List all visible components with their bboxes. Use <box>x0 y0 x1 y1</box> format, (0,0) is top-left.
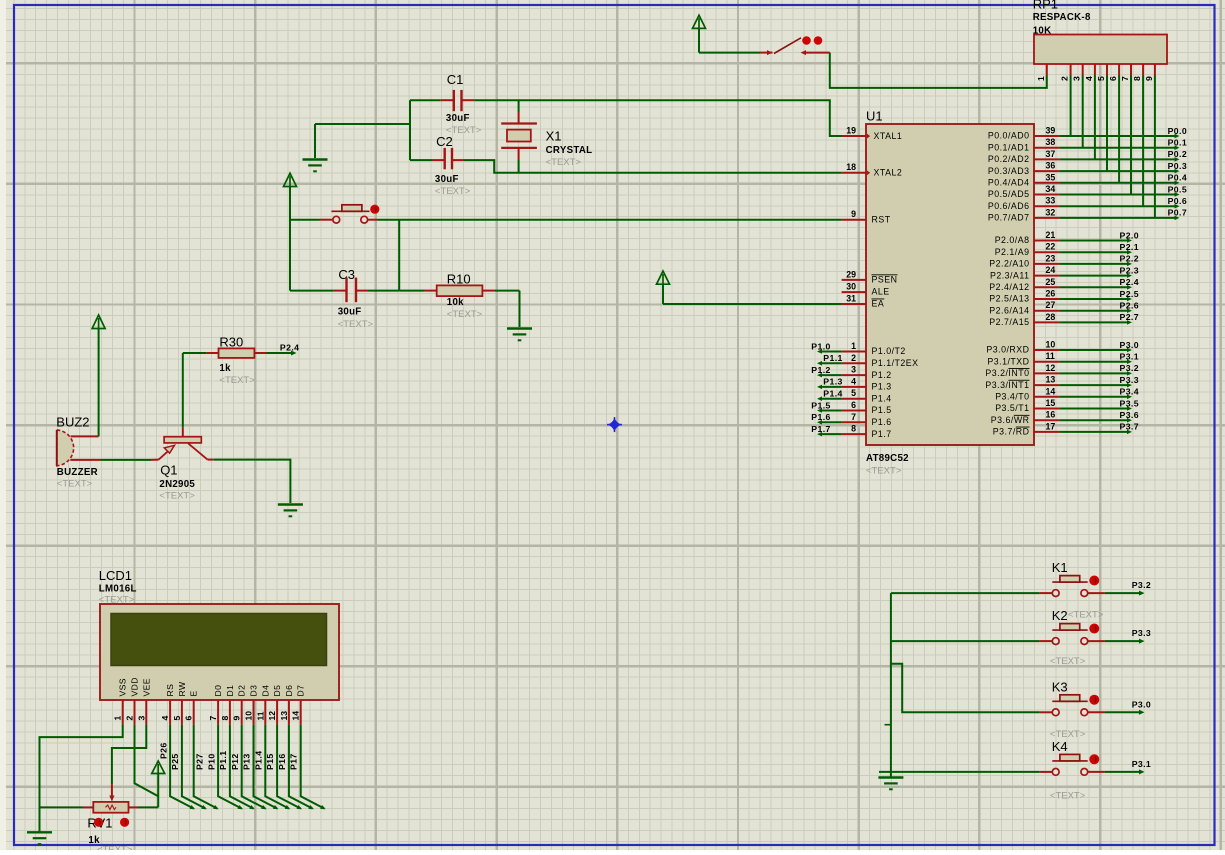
svg-text:36: 36 <box>1046 161 1056 171</box>
svg-text:11: 11 <box>255 711 265 720</box>
svg-text:P2.0/A8: P2.0/A8 <box>995 235 1030 245</box>
svg-text:RS: RS <box>165 684 175 697</box>
svg-text:P3.2/INT0: P3.2/INT0 <box>985 368 1029 378</box>
svg-text:3: 3 <box>136 716 146 721</box>
svg-text:P2.5/A13: P2.5/A13 <box>989 294 1029 304</box>
LCD pin names <box>118 677 306 696</box>
svg-text:P2.2: P2.2 <box>1120 254 1139 264</box>
svg-text:8: 8 <box>1132 76 1142 81</box>
U1 left pin names <box>867 131 919 439</box>
svg-text:16: 16 <box>1046 410 1056 420</box>
wire K3 to P3.0 <box>1105 711 1141 713</box>
svg-text:30uF: 30uF <box>435 174 459 185</box>
svg-text:29: 29 <box>846 269 856 279</box>
svg-text:P3.6: P3.6 <box>1120 410 1139 420</box>
svg-text:<TEXT>: <TEXT> <box>219 375 255 386</box>
svg-text:P17: P17 <box>289 753 299 770</box>
svg-text:<TEXT>: <TEXT> <box>447 309 483 320</box>
svg-text:P1.2: P1.2 <box>872 370 892 380</box>
wires LCD data pins to labels <box>170 725 327 811</box>
svg-text:P2.2/A10: P2.2/A10 <box>989 259 1029 269</box>
svg-text:P27: P27 <box>194 753 204 770</box>
svg-text:15: 15 <box>1046 398 1056 408</box>
svg-text:13: 13 <box>1046 375 1056 385</box>
svg-text:P2.3/A11: P2.3/A11 <box>990 270 1030 280</box>
svg-text:32: 32 <box>1046 207 1056 217</box>
wire K4 to P3.1 <box>1105 771 1141 773</box>
svg-text:RP1: RP1 <box>1033 0 1058 12</box>
svg-text:P1.4: P1.4 <box>872 393 892 403</box>
svg-text:10: 10 <box>244 711 254 721</box>
svg-text:P3.5: P3.5 <box>1120 398 1139 408</box>
svg-text:P1.3: P1.3 <box>872 382 892 392</box>
svg-text:P1.4: P1.4 <box>253 751 263 770</box>
svg-text:U1: U1 <box>866 109 883 124</box>
svg-text:P2.4/A12: P2.4/A12 <box>989 282 1029 292</box>
wire LCD pin2 VDD to RV1 <box>135 725 159 808</box>
svg-text:7: 7 <box>851 412 856 422</box>
svg-text:1k: 1k <box>219 363 231 374</box>
svg-text:K3: K3 <box>1052 679 1068 694</box>
svg-text:26: 26 <box>1046 289 1056 299</box>
svg-text:P3.0: P3.0 <box>1132 699 1151 709</box>
svg-text:P1.1/T2EX: P1.1/T2EX <box>872 358 919 368</box>
svg-text:XTAL1: XTAL1 <box>874 131 903 141</box>
svg-text:D0: D0 <box>213 685 223 697</box>
power symbol VCC RV1 <box>152 761 165 774</box>
RV1 wiper arrow <box>111 784 113 797</box>
svg-text:P13: P13 <box>242 753 252 770</box>
wire VCC to buzzer <box>98 329 100 437</box>
svg-text:P2.7: P2.7 <box>1120 312 1139 322</box>
svg-text:4: 4 <box>160 716 170 721</box>
svg-text:30: 30 <box>846 282 856 292</box>
svg-text:P0.6/AD6: P0.6/AD6 <box>988 201 1030 211</box>
wire LCD pin3 VEE to RV1 wiper <box>112 725 146 784</box>
power symbol VCC reset <box>284 173 297 186</box>
wire C1 left to C2 junction <box>410 99 441 101</box>
svg-text:K1: K1 <box>1052 560 1068 575</box>
svg-text:5: 5 <box>851 388 856 398</box>
svg-text:19: 19 <box>846 126 856 136</box>
svg-text:P25: P25 <box>170 753 180 770</box>
svg-text:21: 21 <box>1046 230 1056 240</box>
wire ground branch <box>315 123 410 125</box>
svg-text:<TEXT>: <TEXT> <box>1050 656 1086 667</box>
ground <box>507 327 532 329</box>
svg-text:23: 23 <box>1046 253 1056 263</box>
potentiometer RV1 <box>93 802 128 813</box>
wire C1 right to XTAL1 <box>474 100 844 136</box>
svg-text:P3.2: P3.2 <box>1132 580 1151 590</box>
svg-text:P3.6/WR: P3.6/WR <box>991 415 1030 425</box>
svg-text:P2.6: P2.6 <box>1120 301 1139 311</box>
BUZ2 pins <box>71 435 99 437</box>
svg-text:30uF: 30uF <box>446 113 470 124</box>
svg-text:D1: D1 <box>225 685 235 697</box>
svg-text:31: 31 <box>846 294 856 304</box>
svg-text:VEE: VEE <box>141 678 151 696</box>
svg-text:P10: P10 <box>206 753 216 770</box>
wires P2 bus <box>1059 230 1139 324</box>
svg-text:7: 7 <box>208 716 218 721</box>
svg-text:<TEXT>: <TEXT> <box>435 186 471 197</box>
svg-text:P3.0/RXD: P3.0/RXD <box>986 345 1029 355</box>
svg-text:17: 17 <box>1046 421 1056 431</box>
svg-text:P1.6: P1.6 <box>872 417 892 427</box>
LCD pins <box>113 700 301 725</box>
svg-text:39: 39 <box>1046 126 1056 136</box>
wires P0 bus <box>1059 126 1187 220</box>
power symbol VCC buzzer <box>92 315 105 329</box>
svg-text:RST: RST <box>872 214 891 224</box>
svg-text:28: 28 <box>1046 312 1056 322</box>
svg-text:P0.6: P0.6 <box>1168 196 1187 206</box>
svg-text:8: 8 <box>220 716 230 721</box>
svg-text:P2.0: P2.0 <box>1120 230 1139 240</box>
svg-text:P3.3: P3.3 <box>1132 628 1151 638</box>
LCD screen <box>111 614 327 666</box>
net labels LCD <box>159 742 299 770</box>
svg-text:1: 1 <box>113 716 123 721</box>
svg-text:P1.1: P1.1 <box>823 353 842 363</box>
svg-text:P16: P16 <box>277 753 287 770</box>
wire <box>698 28 700 52</box>
svg-text:13: 13 <box>279 711 289 721</box>
wire switch to RP1 pin1 <box>830 53 1047 88</box>
svg-text:C1: C1 <box>447 72 464 87</box>
svg-text:P0.1: P0.1 <box>1168 138 1187 148</box>
wire C1/C2 left vertical <box>409 100 411 160</box>
wire R10 to ground <box>519 291 521 327</box>
svg-text:P3.0: P3.0 <box>1120 340 1139 350</box>
svg-text:6: 6 <box>1108 76 1118 81</box>
svg-text:P0.7/AD7: P0.7/AD7 <box>988 213 1030 223</box>
svg-text:6: 6 <box>851 400 856 410</box>
svg-text:38: 38 <box>1046 137 1056 147</box>
svg-text:D6: D6 <box>284 685 294 697</box>
svg-text:P0.5/AD5: P0.5/AD5 <box>988 189 1030 199</box>
svg-text:6: 6 <box>184 716 194 721</box>
svg-text:P0.2: P0.2 <box>1168 149 1187 159</box>
svg-text:K4: K4 <box>1052 739 1068 754</box>
svg-text:D5: D5 <box>272 685 282 697</box>
svg-text:R10: R10 <box>447 272 471 287</box>
button RST <box>290 219 320 221</box>
U1 right pins <box>1034 126 1059 432</box>
svg-text:P1.7: P1.7 <box>811 424 830 434</box>
svg-text:P1.0: P1.0 <box>811 341 830 351</box>
wire R30 to P2.4 <box>267 352 294 354</box>
ground <box>278 503 303 505</box>
svg-text:VSS: VSS <box>118 678 128 696</box>
svg-text:27: 27 <box>1046 300 1056 310</box>
wire key bus <box>891 592 1040 594</box>
svg-text:P0.4: P0.4 <box>1168 173 1187 183</box>
svg-text:AT89C52: AT89C52 <box>866 453 909 464</box>
svg-text:9: 9 <box>232 716 242 721</box>
svg-text:P0.3/AD3: P0.3/AD3 <box>988 166 1030 176</box>
svg-text:P3.1: P3.1 <box>1120 352 1139 362</box>
wire buzzer to Q1 emitter <box>101 459 152 461</box>
svg-text:<TEXT>: <TEXT> <box>866 466 902 477</box>
svg-text:P2.1: P2.1 <box>1120 242 1139 252</box>
svg-text:<TEXT>: <TEXT> <box>1050 791 1086 802</box>
svg-text:D4: D4 <box>260 685 270 697</box>
svg-text:12: 12 <box>267 711 277 721</box>
svg-text:P1.4: P1.4 <box>823 389 842 399</box>
svg-text:P0.7: P0.7 <box>1168 208 1187 218</box>
svg-text:3: 3 <box>851 365 856 375</box>
RP1 pins <box>1036 64 1155 81</box>
svg-text:LM016L: LM016L <box>99 584 137 595</box>
svg-text:C2: C2 <box>436 134 453 149</box>
svg-text:X1: X1 <box>546 129 562 144</box>
svg-text:P0.0/AD0: P0.0/AD0 <box>988 131 1030 141</box>
svg-text:<TEXT>: <TEXT> <box>546 157 582 168</box>
svg-text:P1.2: P1.2 <box>811 365 830 375</box>
svg-text:4: 4 <box>1084 76 1094 81</box>
svg-text:P0.4/AD4: P0.4/AD4 <box>988 178 1030 188</box>
svg-text:P2.1/A9: P2.1/A9 <box>995 247 1030 257</box>
svg-text:P3.3/INT1: P3.3/INT1 <box>985 380 1029 390</box>
svg-text:P2.4: P2.4 <box>1120 277 1139 287</box>
svg-text:P12: P12 <box>230 753 240 770</box>
svg-text:P3.3: P3.3 <box>1120 375 1139 385</box>
power symbol VCC top <box>693 15 706 28</box>
svg-text:P26: P26 <box>159 742 169 759</box>
wire R30 to Q1 base <box>182 353 184 428</box>
svg-text:P1.7: P1.7 <box>872 429 892 439</box>
svg-text:4: 4 <box>851 376 856 386</box>
svg-text:<TEXT>: <TEXT> <box>1068 610 1104 621</box>
wires RP1 to P0 bus <box>1071 76 1155 218</box>
svg-text:35: 35 <box>1046 172 1056 182</box>
svg-text:P1.1: P1.1 <box>218 751 228 770</box>
svg-text:10k: 10k <box>447 297 464 308</box>
svg-text:P1.6: P1.6 <box>811 412 830 422</box>
svg-text:2: 2 <box>851 353 856 363</box>
svg-text:34: 34 <box>1046 184 1056 194</box>
svg-text:9: 9 <box>1144 76 1154 81</box>
U1 right pin names <box>985 131 1029 437</box>
svg-text:P0.1/AD1: P0.1/AD1 <box>988 142 1030 152</box>
svg-text:P3.7: P3.7 <box>1120 422 1139 432</box>
svg-text:E: E <box>189 690 199 696</box>
svg-text:5: 5 <box>1096 76 1106 81</box>
svg-text:5: 5 <box>172 716 182 721</box>
svg-text:P1.5: P1.5 <box>872 405 892 415</box>
svg-text:14: 14 <box>291 711 301 721</box>
svg-text:30uF: 30uF <box>338 307 362 318</box>
svg-text:P15: P15 <box>265 753 275 770</box>
svg-text:CRYSTAL: CRYSTAL <box>546 145 593 156</box>
svg-text:P1.5: P1.5 <box>811 400 830 410</box>
Q1 emitter <box>159 450 170 460</box>
svg-text:18: 18 <box>846 162 856 172</box>
svg-text:RESPACK-8: RESPACK-8 <box>1033 12 1091 23</box>
svg-text:2: 2 <box>125 716 135 721</box>
svg-text:2N2905: 2N2905 <box>159 479 195 490</box>
wires P3 bus <box>1059 340 1139 434</box>
wire bus step to K3 <box>891 664 1040 713</box>
svg-text:9: 9 <box>851 209 856 219</box>
svg-text:VDD: VDD <box>130 677 140 696</box>
svg-text:<TEXT>: <TEXT> <box>97 845 133 851</box>
svg-text:P0.3: P0.3 <box>1168 161 1187 171</box>
ground <box>890 772 892 777</box>
svg-text:P3.4/T0: P3.4/T0 <box>995 392 1029 402</box>
svg-text:P0.5: P0.5 <box>1168 184 1187 194</box>
svg-text:P2.6/A14: P2.6/A14 <box>989 305 1029 315</box>
wire ground row K4 <box>879 771 1040 773</box>
svg-text:<TEXT>: <TEXT> <box>159 491 195 502</box>
wires P1 net stubs <box>811 341 842 436</box>
svg-text:1: 1 <box>851 341 856 351</box>
svg-text:P1.0/T2: P1.0/T2 <box>872 346 906 356</box>
svg-text:24: 24 <box>1046 265 1056 275</box>
svg-text:22: 22 <box>1046 242 1056 252</box>
svg-text:<TEXT>: <TEXT> <box>57 479 93 490</box>
svg-text:P0.2/AD2: P0.2/AD2 <box>988 154 1030 164</box>
svg-text:P2.7/A15: P2.7/A15 <box>989 317 1029 327</box>
svg-text:EA: EA <box>872 299 885 309</box>
svg-text:R30: R30 <box>219 335 243 350</box>
origin marker <box>607 417 622 432</box>
switch SW1 <box>760 52 773 54</box>
svg-text:P3.5/T1: P3.5/T1 <box>995 403 1029 413</box>
Q1 collector <box>188 443 207 459</box>
svg-text:ALE: ALE <box>872 287 890 297</box>
svg-text:Q1: Q1 <box>160 463 177 478</box>
svg-text:7: 7 <box>1120 76 1130 81</box>
svg-text:14: 14 <box>1046 386 1056 396</box>
wire Q1 collector to ground <box>208 459 214 461</box>
svg-text:33: 33 <box>1046 196 1056 206</box>
svg-text:25: 25 <box>1046 277 1056 287</box>
svg-text:1: 1 <box>1036 76 1046 81</box>
U1 left pins <box>842 126 866 435</box>
ground <box>303 158 328 160</box>
svg-text:P3.1/TXD: P3.1/TXD <box>987 356 1029 366</box>
wire K2 to P3.3 <box>1105 640 1141 642</box>
svg-text:12: 12 <box>1046 363 1056 373</box>
wire C2 right to XTAL2 <box>464 160 842 173</box>
svg-text:LCD1: LCD1 <box>99 568 132 583</box>
svg-text:P2.4: P2.4 <box>280 343 299 353</box>
svg-text:XTAL2: XTAL2 <box>874 168 903 178</box>
ground <box>27 831 52 833</box>
svg-text:BUZZER: BUZZER <box>57 467 98 478</box>
svg-text:P3.7/RD: P3.7/RD <box>993 427 1030 437</box>
power symbol VCC EA <box>657 271 670 284</box>
svg-text:D3: D3 <box>249 685 259 697</box>
svg-text:D2: D2 <box>237 685 247 697</box>
svg-text:8: 8 <box>851 424 856 434</box>
svg-text:P2.5: P2.5 <box>1120 289 1139 299</box>
svg-text:P2.3: P2.3 <box>1120 265 1139 275</box>
wire K1 to P3.2 <box>1105 592 1141 594</box>
svg-text:37: 37 <box>1046 149 1056 159</box>
wire RST to U1 <box>378 219 842 221</box>
svg-text:<TEXT>: <TEXT> <box>338 319 374 330</box>
svg-text:P3.2: P3.2 <box>1120 363 1139 373</box>
svg-text:2: 2 <box>1060 76 1070 81</box>
svg-text:PSEN: PSEN <box>872 274 898 284</box>
wire RST junction down <box>398 220 400 291</box>
svg-text:P0.0: P0.0 <box>1168 126 1187 136</box>
svg-text:K2: K2 <box>1052 608 1068 623</box>
svg-text:3: 3 <box>1072 76 1082 81</box>
svg-text:P3.1: P3.1 <box>1132 759 1151 769</box>
svg-text:BUZ2: BUZ2 <box>56 415 89 430</box>
svg-text:RW: RW <box>177 681 187 696</box>
svg-text:P1.3: P1.3 <box>823 377 842 387</box>
wire LCD pin1 VSS to ground <box>40 725 123 832</box>
svg-text:10: 10 <box>1046 340 1056 350</box>
wire EA <box>663 303 842 305</box>
svg-text:11: 11 <box>1046 351 1055 361</box>
svg-text:D7: D7 <box>296 685 306 697</box>
svg-text:P3.4: P3.4 <box>1120 387 1139 397</box>
